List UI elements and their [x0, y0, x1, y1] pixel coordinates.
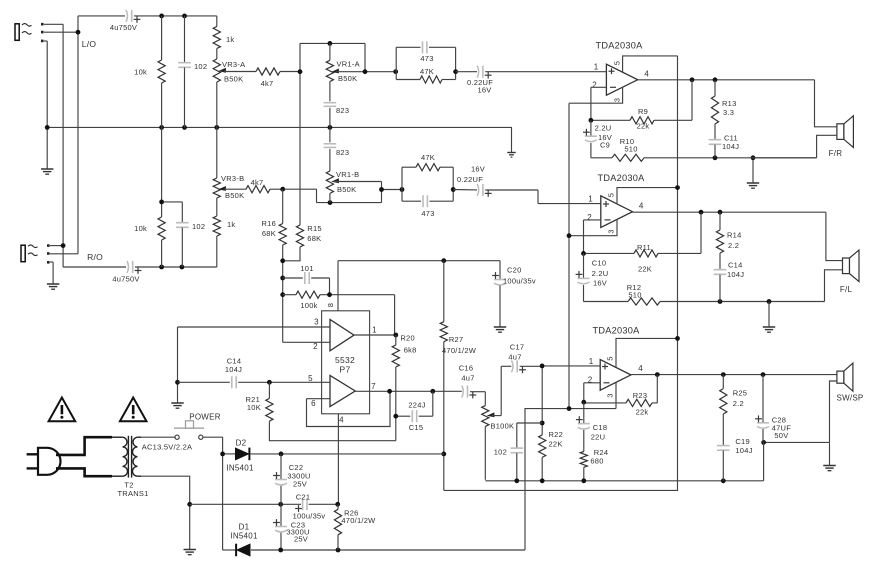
- svg-text:IN5401: IN5401: [230, 532, 258, 541]
- svg-text:B50K: B50K: [338, 74, 357, 83]
- svg-text:510: 510: [624, 145, 637, 154]
- svg-text:TDA2030A: TDA2030A: [593, 326, 641, 336]
- svg-text:4: 4: [638, 364, 643, 373]
- svg-text:22K: 22K: [549, 440, 563, 449]
- svg-text:R23: R23: [633, 391, 648, 400]
- svg-text:22K: 22K: [638, 265, 652, 274]
- svg-text:104J: 104J: [727, 270, 744, 279]
- svg-text:4: 4: [339, 416, 344, 425]
- svg-text:10K: 10K: [247, 403, 261, 412]
- svg-text:22k: 22k: [637, 122, 650, 131]
- svg-text:510: 510: [628, 291, 641, 300]
- svg-text:1: 1: [594, 63, 599, 72]
- svg-text:3.3: 3.3: [723, 108, 734, 117]
- svg-text:473: 473: [421, 209, 434, 218]
- svg-text:100k: 100k: [300, 301, 317, 310]
- svg-text:TDA2030A: TDA2030A: [598, 173, 646, 183]
- svg-text:1k: 1k: [227, 220, 235, 229]
- svg-text:16V: 16V: [593, 279, 607, 288]
- svg-text:224J: 224J: [408, 401, 425, 410]
- svg-text:SW/SP: SW/SP: [836, 394, 863, 403]
- svg-text:4u7: 4u7: [508, 353, 521, 362]
- svg-text:16V: 16V: [471, 165, 485, 174]
- svg-text:F/R: F/R: [829, 149, 843, 158]
- svg-text:B100K: B100K: [491, 422, 515, 431]
- svg-text:VR3-A: VR3-A: [222, 60, 245, 69]
- svg-text:R22: R22: [549, 430, 564, 439]
- svg-text:16V: 16V: [477, 86, 491, 95]
- svg-text:104J: 104J: [722, 142, 739, 151]
- svg-text:D2: D2: [236, 439, 247, 448]
- svg-text:IN5401: IN5401: [226, 464, 254, 473]
- svg-text:4u750V: 4u750V: [110, 23, 137, 32]
- svg-text:R13: R13: [722, 99, 737, 108]
- svg-text:104J: 104J: [225, 365, 242, 374]
- svg-text:102: 102: [192, 222, 205, 231]
- svg-text:AC13.5V/2.2A: AC13.5V/2.2A: [142, 443, 193, 452]
- svg-text:8: 8: [326, 303, 335, 307]
- svg-text:104J: 104J: [735, 446, 752, 455]
- svg-text:47K: 47K: [421, 153, 435, 162]
- svg-text:VR3-B: VR3-B: [221, 174, 244, 183]
- svg-text:22k: 22k: [636, 408, 649, 417]
- svg-text:POWER: POWER: [189, 413, 220, 422]
- svg-text:823: 823: [336, 106, 349, 115]
- svg-text:2.2U: 2.2U: [595, 124, 612, 133]
- svg-text:C9: C9: [600, 141, 610, 150]
- svg-text:B50K: B50K: [225, 191, 244, 200]
- svg-text:2: 2: [313, 342, 318, 351]
- svg-text:680: 680: [590, 457, 603, 466]
- svg-text:25V: 25V: [293, 480, 307, 489]
- svg-text:68K: 68K: [307, 234, 321, 243]
- svg-text:7: 7: [371, 382, 376, 391]
- svg-text:TDA2030A: TDA2030A: [596, 41, 644, 51]
- svg-text:B50K: B50K: [224, 75, 243, 84]
- svg-text:6k8: 6k8: [404, 346, 417, 355]
- svg-text:100u/35v: 100u/35v: [293, 512, 326, 521]
- svg-text:R15: R15: [307, 224, 322, 233]
- svg-text:C14: C14: [728, 261, 743, 270]
- svg-text:25V: 25V: [294, 535, 308, 544]
- svg-text:R/O: R/O: [87, 252, 103, 262]
- svg-text:47K: 47K: [420, 67, 434, 76]
- svg-text:473: 473: [420, 54, 433, 63]
- svg-text:R11: R11: [637, 243, 651, 252]
- svg-text:VR1-B: VR1-B: [336, 170, 359, 179]
- svg-text:P7: P7: [340, 365, 351, 375]
- svg-text:F/L: F/L: [840, 285, 853, 294]
- svg-text:2.2U: 2.2U: [592, 269, 609, 278]
- svg-text:L/O: L/O: [82, 39, 97, 49]
- svg-text:4u7: 4u7: [461, 374, 474, 383]
- svg-text:C18: C18: [593, 423, 608, 432]
- svg-text:1k: 1k: [226, 35, 234, 44]
- svg-text:10k: 10k: [134, 224, 147, 233]
- svg-text:C10: C10: [592, 259, 607, 268]
- svg-text:R20: R20: [400, 334, 415, 343]
- svg-text:TRANS1: TRANS1: [117, 489, 148, 498]
- svg-text:3: 3: [314, 318, 319, 327]
- svg-text:D1: D1: [239, 523, 250, 532]
- svg-text:2: 2: [587, 213, 592, 222]
- svg-text:3: 3: [606, 393, 615, 397]
- svg-text:4k7: 4k7: [251, 178, 264, 187]
- svg-text:C20: C20: [507, 266, 522, 275]
- svg-text:470/1/2W: 470/1/2W: [442, 346, 477, 355]
- svg-text:3: 3: [613, 98, 622, 102]
- svg-text:R25: R25: [733, 389, 748, 398]
- svg-text:4: 4: [644, 70, 649, 79]
- svg-text:R27: R27: [449, 335, 464, 344]
- svg-text:2: 2: [592, 81, 597, 90]
- svg-text:5: 5: [308, 374, 313, 383]
- svg-text:C19: C19: [735, 437, 750, 446]
- svg-text:101: 101: [300, 264, 313, 273]
- svg-text:5532: 5532: [335, 355, 355, 365]
- svg-text:1: 1: [372, 326, 377, 335]
- svg-text:2.2: 2.2: [733, 399, 744, 408]
- svg-text:2.2: 2.2: [728, 241, 739, 250]
- svg-text:102: 102: [194, 62, 207, 71]
- svg-text:50V: 50V: [774, 431, 788, 440]
- svg-text:C15: C15: [409, 423, 424, 432]
- svg-text:10k: 10k: [134, 68, 147, 77]
- svg-text:1: 1: [588, 195, 593, 204]
- svg-text:C17: C17: [510, 343, 525, 352]
- svg-text:5: 5: [607, 193, 616, 197]
- svg-text:102: 102: [494, 448, 507, 457]
- svg-text:68K: 68K: [262, 229, 276, 238]
- svg-text:4: 4: [639, 202, 644, 211]
- svg-text:823: 823: [336, 148, 349, 157]
- svg-text:R14: R14: [727, 231, 742, 240]
- svg-text:22U: 22U: [591, 433, 606, 442]
- svg-text:R16: R16: [261, 219, 276, 228]
- svg-text:B50K: B50K: [337, 185, 356, 194]
- svg-text:470/1/2W: 470/1/2W: [341, 516, 376, 525]
- svg-text:0.22UF: 0.22UF: [457, 175, 483, 184]
- svg-text:C16: C16: [459, 364, 474, 373]
- svg-text:1: 1: [589, 357, 594, 366]
- svg-text:VR1-A: VR1-A: [337, 60, 360, 69]
- svg-text:6: 6: [311, 399, 316, 408]
- svg-text:R9: R9: [638, 107, 648, 116]
- svg-text:C21: C21: [296, 493, 311, 502]
- svg-text:3: 3: [607, 229, 616, 233]
- svg-text:5: 5: [606, 356, 615, 360]
- svg-text:4k7: 4k7: [261, 79, 274, 88]
- svg-text:5: 5: [613, 61, 622, 65]
- svg-text:100u/35v: 100u/35v: [503, 277, 536, 286]
- svg-text:4u750V: 4u750V: [112, 275, 139, 284]
